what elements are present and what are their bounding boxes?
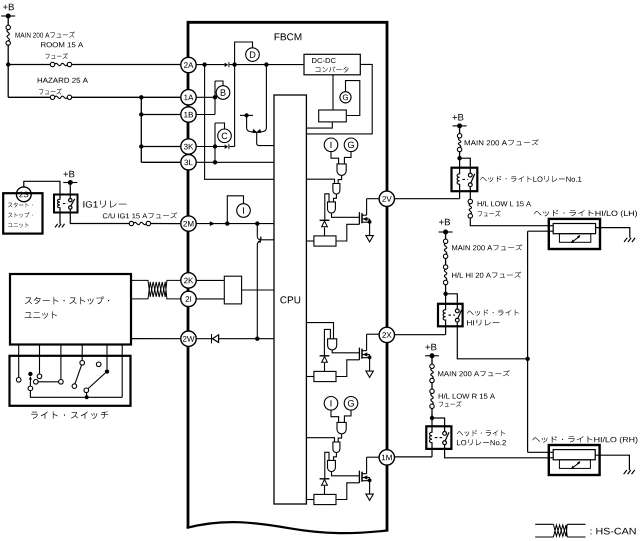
wire CPU to R3 — [306, 499, 314, 501]
node 2M-Q2 — [255, 221, 259, 225]
wire CPU to R2 — [306, 376, 314, 378]
wire to pin 3K — [141, 146, 180, 148]
power +B (battery, top left) — [3, 4, 14, 11]
DC-DC converter box — [304, 54, 360, 75]
relay IG1 — [54, 195, 78, 213]
node bottom rail junction — [85, 395, 89, 399]
wire U4 out to Q4 gate — [332, 350, 359, 353]
wire CPU to gate U4 — [306, 323, 333, 339]
FBCM module border (torn bottom) — [188, 22, 387, 530]
wire bottom rail — [30, 391, 122, 398]
wire between fuses (No.2) — [431, 383, 433, 389]
wire ROOM fuse to pin 2A — [72, 64, 181, 66]
MOSFET Q5 — [358, 471, 360, 483]
label start-stop unit line2 — [8, 212, 32, 218]
transistor Q2 — [256, 224, 258, 237]
contact T3 — [37, 374, 42, 379]
wire 2V to relay coil — [395, 198, 460, 200]
label DC-DC — [312, 58, 336, 63]
wire CAN transceiver to CPU — [242, 289, 274, 291]
switch lever S3 — [88, 373, 105, 389]
wire I to gate U5 — [331, 410, 339, 422]
label H/L HI 20 A fuse — [452, 272, 521, 278]
wire G to gate U1 — [344, 152, 351, 164]
relay LO No.2 — [426, 426, 451, 449]
terminal D — [246, 48, 260, 62]
node 2A-a — [202, 62, 206, 66]
fuse MAIN 200 A (left) — [6, 25, 10, 29]
label ROOM fuse (kana) — [45, 53, 68, 59]
label headlight LO relay No.2 line2 — [457, 440, 506, 446]
label MAIN 200 A fuse (No.1) — [465, 139, 539, 145]
label H/L LOW L 15 A — [478, 201, 531, 206]
wire 1B internal — [196, 114, 215, 116]
light switch box — [10, 356, 131, 406]
wire U1 out to U2 — [338, 175, 341, 183]
wire zener feedback to gate U7 — [325, 452, 329, 479]
relay HI — [438, 304, 463, 327]
wire LO No.2 switch to headlight RH — [445, 449, 554, 458]
pin 1A — [181, 90, 196, 105]
wire 2S to IG1 relay coil — [24, 181, 60, 194]
pin 2M — [181, 216, 196, 231]
wire U2 out to U3 — [334, 194, 337, 202]
terminal I (2M) — [237, 204, 251, 218]
wire light-switch lead 3 — [60, 345, 62, 380]
wire to pin 3L — [141, 161, 180, 163]
wire +B to MAIN fuse (No.1) — [459, 126, 461, 134]
wire CPU to R1 — [306, 240, 314, 242]
wire loop to terminal I — [227, 196, 243, 224]
wire relay No.1 coil to 2V wire — [459, 191, 461, 199]
wire node LO2 to relay pins — [431, 418, 433, 426]
fuse ROOM 15 A — [50, 62, 54, 66]
zener diode ZD1 — [320, 219, 330, 221]
wire zener feedback to gate U3 — [325, 194, 329, 221]
wire HAZARD fuse to pin 1A — [72, 96, 181, 98]
block under G box — [319, 110, 347, 122]
node R1 junction — [457, 156, 461, 160]
start-stop unit (main) box — [10, 274, 131, 345]
wire 3K internal — [196, 146, 225, 148]
wire DC-DC to G box — [332, 75, 334, 110]
pin 2V — [379, 191, 394, 206]
node on 3K wire — [139, 144, 143, 148]
node LO2 junction — [430, 416, 434, 420]
label start-stop unit line3 — [8, 223, 29, 228]
wire IG1 coil to ground — [59, 213, 61, 224]
wire LO No.2 coil to 1M wire — [431, 449, 433, 457]
fuse MAIN 200 A (HI) — [443, 239, 447, 243]
wire light-switch lead 2 — [39, 345, 41, 375]
node HI distribution — [525, 357, 529, 361]
node 3K-C loop — [213, 144, 217, 148]
contact T4 — [34, 380, 39, 385]
pin 2A — [181, 57, 196, 72]
label headlight HI relay line2 — [467, 320, 500, 326]
wire relay No.1 switch to fuse — [469, 191, 471, 199]
label headlight HI/LO (LH) — [534, 210, 637, 218]
terminal G (DC-DC) — [340, 92, 351, 103]
wire R1 to Q3 gate bar — [336, 224, 359, 241]
wire DC-DC right to CPU — [306, 64, 372, 133]
terminal G (2V block) — [344, 138, 358, 152]
wire T4 to T5 — [38, 381, 59, 383]
wire between fuses (HI) — [445, 259, 447, 265]
fuse HAZARD 25 A — [50, 95, 54, 99]
wire HI relay switch to HI node — [457, 326, 527, 359]
node on 1B wire — [139, 112, 143, 116]
wire zener feedback to gate U4 — [324, 329, 330, 355]
wire CPU to gate U2 — [306, 179, 334, 183]
label MAIN 200 A fuse (left) — [16, 31, 75, 37]
wire 2M internal — [196, 223, 274, 225]
twisted pair wires CAN (unit to 2K/2I) — [131, 280, 181, 299]
label start-stop unit main line2 — [25, 311, 57, 319]
gate U5 (AND) — [337, 422, 346, 434]
fuse H/L LOW R 15 A — [430, 389, 434, 393]
contact T2 common (dot) — [28, 372, 32, 376]
node 2M-I loop — [225, 221, 229, 225]
diode D3K (on 3K wire) — [225, 145, 229, 149]
connector 2S — [16, 187, 31, 202]
CAN transceiver box — [224, 276, 241, 304]
wire fuse to node R1 — [459, 152, 461, 159]
wire fuse to node LO2 — [431, 409, 433, 419]
label H/L LOW R 15 A — [439, 393, 495, 398]
contact T6 (NC) — [96, 362, 101, 367]
gate U6 (AND) — [333, 442, 340, 453]
wire 2K to CAN transceiver — [196, 279, 225, 281]
wire light-switch lead 5 — [106, 345, 108, 370]
label MAIN 200 A fuse (HI) — [452, 244, 522, 250]
wire node2A-b down to 3K diode — [234, 65, 236, 147]
wire fuse to node A1 — [7, 45, 9, 64]
gate U4 (AND) — [328, 339, 337, 350]
wire 2A to DC-DC — [196, 64, 225, 66]
wire R2 to Q4 gate bar — [336, 360, 359, 377]
label converter (kana) — [316, 66, 349, 72]
pin 3L — [181, 155, 196, 170]
headlight HI/LO (RH) unit — [549, 445, 600, 475]
wire ROOM branch left segment — [8, 64, 50, 66]
power +B (IG1 relay) — [64, 171, 75, 178]
wire light-switch lead 6 — [121, 345, 123, 398]
pin 2I — [181, 291, 196, 306]
relay LO No.1 — [452, 168, 478, 192]
FBCM label — [275, 33, 302, 40]
pin 1M — [379, 450, 394, 465]
wire HAZARD branch left segment — [8, 96, 50, 98]
transistor Q1 — [247, 115, 253, 132]
MOSFET Q3 — [358, 212, 360, 224]
wire fuse to headlight LH (LOW) — [470, 218, 553, 226]
contact T5 — [59, 380, 64, 385]
wire HI distribution vertical — [527, 231, 529, 452]
wire +B to MAIN fuse (HI) — [445, 232, 447, 239]
label HAZARD 25 A — [38, 78, 88, 83]
wire 2W internal — [196, 338, 211, 340]
wire fuse to pin 2M — [151, 223, 181, 225]
transistor Q1 bias bar — [240, 114, 253, 116]
wire loop to terminal C — [215, 123, 225, 129]
pin 2W — [181, 331, 196, 346]
wire 1A internal — [196, 96, 215, 98]
pin 3K — [181, 139, 196, 154]
terminal B — [216, 86, 230, 100]
node 2A-b — [232, 62, 236, 66]
wire node2A-a down to CPU — [205, 65, 274, 180]
wire G to gate U5 — [344, 410, 351, 422]
wire light-switch lead 1 — [18, 345, 20, 378]
label H/L LOW R fuse (kana) — [439, 401, 462, 407]
legend HS-CAN text — [591, 528, 636, 535]
contact T7 common (dot) — [105, 369, 109, 373]
start-stop unit (small) box — [3, 193, 42, 233]
diode D2A (on 2A wire) — [225, 63, 229, 67]
node A1 junction — [6, 62, 10, 66]
diode D2W — [211, 334, 213, 343]
switch wiper S1 with arrow — [29, 378, 31, 386]
label start-stop unit line1 — [8, 202, 32, 207]
wire 1M to LO relay No.2 coil — [395, 456, 432, 458]
wire node R1 to relay pins — [459, 158, 461, 168]
label IG1 relay — [83, 201, 126, 208]
label headlight HI/LO (RH) — [532, 436, 637, 444]
CPU label — [280, 296, 300, 303]
wire loop to terminal D — [235, 42, 253, 65]
contact T1 (off) — [16, 378, 21, 383]
gate U1 (AND) — [337, 164, 346, 176]
fuse MAIN 200 A (No.1) — [457, 134, 461, 138]
gate U3 (AND) — [328, 202, 336, 213]
wire U5 out to U6 — [338, 434, 341, 442]
wire loop to terminal B — [215, 81, 223, 86]
wire U6 out to U7 — [334, 453, 337, 461]
wire headlight RH to ground — [596, 455, 630, 470]
gate U7 (AND) — [328, 460, 336, 471]
zener diode ZD2 — [320, 355, 330, 357]
ground (headlight RH) — [624, 470, 627, 474]
label start-stop unit main line1 — [25, 296, 109, 304]
wire unit to pin 2W — [131, 338, 180, 340]
node 3L-C — [213, 160, 217, 164]
node 2A-c — [264, 62, 268, 66]
wire U7 out to Q5 gate — [332, 472, 360, 476]
wire I to gate U1 — [331, 152, 339, 164]
label MAIN 200 A fuse (No.2) — [438, 370, 510, 376]
power +B (LO relay No.2) — [426, 344, 437, 351]
wire node HI1 to relay pins — [445, 294, 447, 304]
wire HI feed to headlight RH — [528, 451, 554, 453]
wire 2I to CAN transceiver — [196, 298, 225, 300]
label light switch — [31, 411, 108, 419]
wire +B to MAIN fuse (No.2) — [431, 356, 433, 364]
power +B (HI relay) — [439, 219, 450, 226]
label C/U IG1 15 A fuse — [103, 212, 177, 218]
headlight HI/LO (LH) unit — [549, 219, 600, 249]
label headlight HI relay line1 — [467, 310, 519, 316]
switch lever S2 — [75, 365, 82, 384]
node B1 junction on hazard wire — [139, 95, 143, 99]
resistor R3 — [314, 494, 336, 504]
wire R3 to Q5 gate bar — [336, 483, 359, 500]
CPU box — [274, 95, 306, 504]
legend twisted pair symbol (HS-CAN) — [535, 523, 553, 525]
label HAZARD fuse (kana) — [39, 88, 62, 94]
resistor R1 — [314, 236, 336, 246]
terminal I (1M block) — [324, 397, 338, 411]
fuse C/U IG1 15 A — [129, 221, 133, 225]
pin 2X — [379, 327, 394, 342]
ground (IG1 relay) — [55, 224, 58, 228]
power +B (LO relay No.1) — [453, 114, 464, 121]
wire HI feed to headlight LH — [528, 230, 554, 232]
wire +B to IG1 relay switch — [69, 183, 71, 195]
arrow on 2M wire — [210, 221, 215, 226]
wire to pin 1B — [141, 114, 180, 116]
node 2W-Q2 — [255, 337, 259, 341]
fuse H/L HI 20 A — [443, 265, 447, 269]
MOSFET Q4 — [358, 348, 360, 360]
label headlight LO relay No.1 — [480, 176, 581, 182]
wire node A1 down to hazard branch — [7, 65, 9, 98]
ground (headlight LH) — [624, 238, 627, 242]
wire 3L internal to CPU — [196, 161, 274, 163]
wire U3 out to Q3 gate — [332, 213, 360, 217]
terminal C — [218, 129, 232, 143]
resistor R2 — [314, 371, 336, 381]
pin 2K — [181, 273, 196, 288]
label ROOM 15 A — [41, 42, 83, 47]
node HI1 junction — [443, 292, 447, 296]
wire +B to MAIN fuse — [7, 16, 9, 25]
fuse MAIN 200 A (No.2) — [430, 364, 434, 368]
wire fuse to node HI1 — [445, 285, 447, 294]
wire light-switch lead 4 — [81, 345, 83, 361]
node 1A-B loop — [213, 95, 217, 99]
wire 2X to HI relay coil — [395, 334, 446, 336]
wire G loop (DC-DC) — [346, 81, 360, 116]
zener diode ZD3 — [320, 478, 330, 480]
label headlight LO relay No.2 line1 — [457, 430, 505, 436]
wire HI relay coil to 2X wire — [445, 326, 447, 334]
pin 1B — [181, 107, 196, 122]
fuse H/L LOW L 15 A — [468, 199, 472, 203]
label H/L LOW L fuse (kana) — [478, 211, 501, 217]
terminal G (1M block) — [344, 397, 358, 411]
wire bus x141 vertical — [140, 97, 142, 162]
gate U2 (AND) — [333, 184, 340, 195]
wire G box to CPU — [306, 122, 332, 128]
wire lever S3 to bottom rail — [86, 393, 88, 398]
wire CPU to gate U6 — [306, 438, 334, 442]
wire headlight LH to ground — [596, 228, 630, 238]
terminal I (2V block) — [324, 138, 338, 152]
wire IG1 switch to fuse — [70, 213, 129, 224]
